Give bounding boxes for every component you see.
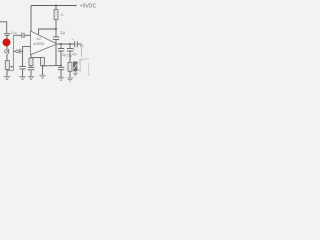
- wire rail end tick: [75, 4, 77, 6]
- capacitor C8 zobel left: [60, 44, 62, 48]
- speaker LS1 cone: [77, 62, 80, 72]
- wire from rail to R1: [55, 6, 57, 10]
- svg-text:+9VDC: +9VDC: [80, 4, 96, 10]
- capacitor C2 coupling (polarized): [16, 50, 19, 53]
- wire left supply drop to U1: [30, 6, 32, 32]
- ground R2 chain: [28, 75, 34, 77]
- ground R4: [67, 77, 73, 79]
- ground C5: [19, 75, 25, 77]
- ground faint right: [87, 73, 90, 75]
- wire faint right stub: [88, 63, 90, 75]
- wire C3 to U1: [24, 34, 30, 36]
- node supply junction: [55, 5, 57, 7]
- svg-text:+: +: [72, 38, 74, 42]
- wire C10 output to jack: [78, 43, 82, 45]
- resistor R3 feedback (vertical hatched): [41, 58, 45, 66]
- wire pot bottom to ground: [6, 70, 8, 77]
- svg-text:+: +: [73, 47, 75, 51]
- wire below marker: [6, 46, 8, 50]
- speaker LS1 body: [73, 62, 77, 71]
- capacitor C3 non-inv input: [21, 33, 23, 38]
- capacitor C5 to ground: [19, 65, 25, 67]
- wire feedback tap: [31, 57, 43, 59]
- node output junction 2: [69, 43, 71, 45]
- wire bias line to U1 V+: [39, 29, 57, 36]
- potentiometer VR1 (hatched box): [5, 61, 9, 70]
- node bias junction: [55, 28, 57, 30]
- wire C4 bottom down: [55, 40, 57, 66]
- svg-text:..: ..: [62, 83, 64, 87]
- ground C7: [58, 76, 64, 78]
- wire top supply rail: [31, 5, 77, 7]
- node output junction 1: [60, 43, 62, 45]
- svg-text:10µ: 10µ: [60, 53, 66, 57]
- svg-text:..: ..: [18, 83, 20, 87]
- svg-text:..: ..: [2, 83, 4, 87]
- capacitor C1 coupling (polarized): [5, 50, 8, 53]
- wire R4 to ground: [69, 71, 71, 78]
- svg-text:1k: 1k: [60, 13, 64, 17]
- resistor R4 zobel (vertical hatched): [68, 62, 72, 71]
- node feedback junction: [60, 65, 62, 67]
- caption remnants bottom: [2, 83, 75, 87]
- svg-text:1/2: 1/2: [36, 37, 42, 41]
- svg-text:10µ: 10µ: [11, 31, 17, 35]
- wire wiper riser: [13, 35, 15, 70]
- wire U1 bottom corner down: [30, 55, 32, 58]
- wire R3 bottom to ground: [42, 66, 44, 75]
- ground pot: [4, 75, 10, 77]
- speaker LS1 highlight slash: [73, 63, 78, 70]
- capacitor C7 below feedback node: [60, 65, 62, 67]
- wire upper input branch: [14, 34, 22, 36]
- ground R3: [39, 74, 45, 76]
- op-amp U1 triangle: [31, 31, 58, 55]
- svg-text:4Ω: 4Ω: [72, 53, 77, 57]
- wire U1 output: [57, 43, 74, 45]
- jack J1 input plug marks: [4, 33, 10, 35]
- wire C2 to inverting input: [20, 47, 30, 52]
- svg-text:1µ: 1µ: [60, 30, 65, 35]
- svg-text:...: ...: [10, 83, 13, 87]
- svg-text:8Ω: 8Ω: [84, 57, 89, 61]
- node R3 bottom: [42, 65, 44, 67]
- wire jack drop: [81, 45, 83, 58]
- wire C1 to pot: [6, 54, 8, 61]
- capacitor C4 bypass (on node, vertical): [55, 29, 57, 37]
- wire wiper to C2: [14, 50, 17, 52]
- capacitor C9 zobel right: [69, 44, 71, 48]
- capacitor C10 output coupling: [74, 41, 76, 47]
- wire feedback bus to C7: [43, 64, 62, 67]
- wire jack to node: [6, 36, 8, 40]
- ground speaker: [73, 73, 78, 76]
- wire speaker to ground: [74, 71, 76, 74]
- resistor R1 (vertical, hatched box): [54, 10, 58, 20]
- wire input left edge entry: [0, 22, 7, 33]
- node input (red marker): [3, 39, 10, 46]
- wire junction down to C5: [22, 51, 24, 66]
- svg-text:4/4558: 4/4558: [33, 42, 45, 46]
- resistor R2 (vertical hatched): [29, 58, 33, 66]
- svg-text:..: ..: [73, 83, 75, 87]
- wiper arrow of VR1: [11, 66, 14, 68]
- wire R1 bottom to node: [55, 20, 57, 29]
- capacitor C6 under R2: [30, 66, 32, 68]
- svg-text:4Ω: 4Ω: [80, 44, 85, 48]
